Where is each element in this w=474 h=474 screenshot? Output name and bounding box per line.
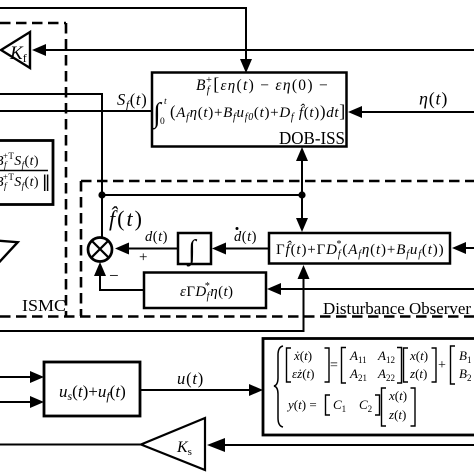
matrix xz bracket 2 xyxy=(382,388,416,426)
wire f-hat branch to observer column xyxy=(102,194,302,196)
wire Kf input from right edge xyxy=(45,49,474,51)
matrix A bracket xyxy=(342,348,402,384)
amplifier Ks xyxy=(141,418,205,470)
wire Ks input from right edge xyxy=(224,444,474,446)
brace left curly xyxy=(274,346,283,427)
wire observer box to integrator xyxy=(225,248,269,250)
svg-text:η(t): η(t) xyxy=(419,89,448,110)
svg-text:=: = xyxy=(330,358,338,373)
wire top feedback line into DOB-ISS top xyxy=(0,8,246,62)
svg-text:d(t): d(t) xyxy=(234,229,257,245)
dashed box ISMC (top and right edges) xyxy=(0,23,66,316)
svg-text:t: t xyxy=(164,97,167,107)
matrix xdot bracket xyxy=(287,348,330,382)
svg-text:Sf(t): Sf(t) xyxy=(117,90,147,111)
svg-text:−: − xyxy=(109,266,119,285)
svg-text:0: 0 xyxy=(160,117,165,127)
matrix B bracket (cut off) xyxy=(451,346,456,384)
svg-text:ISMC: ISMC xyxy=(22,296,66,315)
svg-text:x(t): x(t) xyxy=(388,388,407,403)
dashed bottom edge ISMC / Disturbance Observer xyxy=(0,315,474,318)
wire u(t) to plant box xyxy=(140,389,250,391)
svg-text:Bf+TSf(t): Bf+TSf(t) xyxy=(0,172,39,191)
svg-text:y(t) =: y(t) = xyxy=(286,397,317,412)
svg-text:εΓDf*η(t): εΓDf*η(t) xyxy=(180,281,233,302)
wire integrator to sum circle xyxy=(128,248,178,250)
box DOB-ISS xyxy=(152,73,347,147)
box plant state-space (cut off at right edge) xyxy=(263,339,474,436)
dashed box Disturbance Observer (left and top edges) xyxy=(81,181,474,316)
fraction bar xyxy=(0,170,48,172)
wire eta input to epsGamma box from right edge xyxy=(280,288,474,290)
svg-text:Disturbance Observer: Disturbance Observer xyxy=(323,299,471,318)
svg-text:z(t): z(t) xyxy=(409,366,427,381)
node junction at observer column xyxy=(298,191,305,198)
wire uf line from left edge up into observer box bottom xyxy=(0,277,304,331)
amplifier Kf xyxy=(1,32,30,68)
svg-text:x(t): x(t) xyxy=(409,348,428,363)
wire us input 2 xyxy=(0,401,32,403)
wire Sf(t) output from DOB-ISS to left edge xyxy=(0,110,152,112)
wire double arrow between DOB-ISS and observer box xyxy=(301,160,303,220)
sum circle with cross xyxy=(88,238,112,262)
box observer equation xyxy=(269,233,450,264)
node junction on f-hat line xyxy=(98,191,105,198)
gain triangle fragment at left edge xyxy=(0,239,18,283)
wire us input 1 xyxy=(0,376,32,378)
svg-text:z(t): z(t) xyxy=(388,407,406,422)
svg-text:ẋ(t): ẋ(t) xyxy=(293,348,312,363)
wire f-hat output up and to left edge xyxy=(0,94,102,237)
svg-text:(Afη(t)+Bfuf0(t)+Df f̂(t))dt]: (Afη(t)+Bfuf0(t)+Df f̂(t))dt] xyxy=(170,101,346,123)
svg-text:+: + xyxy=(438,358,446,373)
svg-text:+: + xyxy=(139,250,147,266)
box epsilon-Gamma-D equation xyxy=(144,273,266,309)
svg-text:Bf+TSf(t): Bf+TSf(t) xyxy=(0,151,39,170)
wire epsGamma box feedback into sum circle bottom xyxy=(100,275,144,290)
matrix xz bracket 1 xyxy=(404,348,437,382)
wire input into observer box right side xyxy=(465,247,474,249)
box integrator xyxy=(178,233,211,264)
wire Ks output to left edge xyxy=(0,444,141,446)
svg-text:u(t): u(t) xyxy=(177,369,204,388)
svg-text:Bf+[εη(t) − εη(0) −: Bf+[εη(t) − εη(0) − xyxy=(196,74,329,96)
svg-text:DOB-ISS: DOB-ISS xyxy=(279,128,345,148)
box us+uf xyxy=(44,362,140,416)
svg-text:εż(t): εż(t) xyxy=(292,366,315,381)
svg-text:d(t): d(t) xyxy=(145,229,168,245)
box sliding surface fraction (cut off at left edge) xyxy=(0,141,53,205)
wire eta(t) input from right edge xyxy=(361,111,474,113)
svg-text:f̂(t): f̂(t) xyxy=(109,206,144,231)
